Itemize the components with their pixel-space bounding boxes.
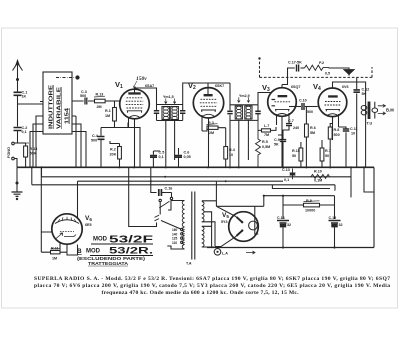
dashed option box [260,60,373,77]
wire C10 to V4 grid [305,106,318,108]
IF transformer 2 [227,97,260,167]
capacitor C17 [297,65,305,72]
svg-text:Ym2,9: Ym2,9 [239,94,250,98]
rail drop x351 [350,167,352,197]
svg-text:R.8: R.8 [334,128,340,132]
right rail [373,167,375,247]
svg-text:500: 500 [91,139,97,143]
resistor R13 50K [21,143,29,167]
svg-text:10000: 10000 [305,209,315,213]
svg-text:R.1: R.1 [105,109,111,113]
svg-text:B.M: B.M [386,108,394,113]
svg-text:C.5: C.5 [159,151,165,155]
svg-text:0,1: 0,1 [22,130,27,134]
svg-text:B: B [77,248,82,255]
tube V2 6SK7 [193,88,223,168]
resistor R6 [305,107,309,168]
svg-text:C.4: C.4 [92,134,99,138]
wire bus to C16 [151,167,157,192]
resistor R15 50K [299,142,303,167]
label selector [172,228,178,245]
bottom paragraph [34,276,390,296]
wire P2 to ground [329,68,350,70]
svg-text:53/2R.: 53/2R. [109,246,153,257]
svg-text:R.10: R.10 [314,170,322,174]
svg-text:INDUTTORE: INDUTTORE [49,84,55,129]
svg-text:50: 50 [292,154,296,158]
tube V3 6SQ7 [268,85,297,168]
tube V5 5Y3 [229,212,259,242]
svg-text:C.11: C.11 [350,127,358,131]
svg-text:0,5M: 0,5M [262,145,270,149]
resistor R1 [113,101,117,128]
power switch S [159,193,173,209]
capacitor C14 [277,221,289,248]
svg-text:500: 500 [307,110,313,114]
wire box right terminals down to bus [76,116,86,167]
svg-text:frequenza 470 kc. Onde medie d: frequenza 470 kc. Onde medie da 600 a 12… [102,290,300,296]
wire filters down [283,191,335,220]
svg-text:R.4: R.4 [229,148,236,152]
svg-text:R.5: R.5 [262,140,268,144]
mod labels [77,234,154,266]
resistor R4 [224,128,228,168]
svg-text:R.11: R.11 [51,247,59,251]
potentiometer P2 zigzag [305,65,330,70]
svg-text:6SA7: 6SA7 [145,84,154,88]
main bus wire [17,166,374,168]
junction dots bottom [263,195,336,249]
svg-text:6E5: 6E5 [85,223,92,227]
wires V5 [215,181,264,246]
capacitor C13 [290,169,296,180]
wire V3 plate to C10 [289,106,301,108]
svg-text:R.3: R.3 [208,121,214,125]
svg-text:C.10: C.10 [299,99,307,103]
tube V6 6E5 magic eye [52,214,82,252]
pilot lamp LA [214,249,255,256]
capacitor C6 [175,148,182,167]
bottom rail [207,247,374,249]
capacitor C4 500 [98,128,105,168]
bus junction dots [31,166,365,168]
svg-text:1M: 1M [105,114,110,118]
capacitor C5 [150,151,160,167]
resistor R2 20K [110,141,121,167]
inductor box text [49,84,71,129]
wire bus3 to V6 top [77,181,79,218]
svg-text:C.7: C.7 [288,119,294,123]
svg-text:C.14: C.14 [277,216,285,220]
tuning shaft dash-dot link [56,76,80,79]
rail drop x364 [364,167,374,192]
resistor R11 1M [41,248,67,254]
svg-text:MOD: MOD [93,237,108,243]
wire left feed to selector [129,167,157,226]
capacitor C1 [14,92,22,95]
resistor R3 2M [202,124,226,131]
svg-text:L.A: L.A [222,252,228,256]
svg-text:C.15: C.15 [329,216,337,220]
V2 grid cap [204,94,213,96]
svg-text:5M: 5M [310,131,315,135]
ground (bottom left) [12,167,23,199]
heater rail to filter [272,185,330,189]
svg-text:2M: 2M [97,105,102,109]
svg-text:1154: 1154 [65,108,71,124]
svg-text:7M: 7M [264,133,269,137]
svg-text:500: 500 [334,133,340,137]
svg-text:SUPERLA RADIO S. A. - Modd. 53: SUPERLA RADIO S. A. - Modd. 53/2 F e 53/… [34,276,390,282]
voltage selector [155,202,186,244]
grid leak L7 [258,127,276,132]
wire under V1 [101,123,140,168]
speaker arrows B.M [378,104,386,115]
wire V6 cathode down [67,245,78,256]
wire IF1 to V2 grid cap and IF2 feed [183,83,230,105]
svg-text:10: 10 [351,132,355,136]
svg-text:P.2: P.2 [319,61,324,65]
svg-text:R.13: R.13 [96,93,104,97]
svg-text:placca 70 V; 6V6 placca 200 V,: placca 70 V; 6V6 placca 200 V, griglia 1… [34,283,390,289]
capacitor C12 5K [354,77,360,167]
wire C1 down and to coil box [18,96,44,127]
HT filter line [264,195,335,197]
svg-text:110: 110 [172,241,177,245]
svg-text:C.16: C.16 [165,187,173,191]
second bus wire [42,167,352,177]
svg-text:C.9: C.9 [274,138,280,142]
wire V4 plate to output transformer [332,82,366,105]
resistor R10 zigzag [311,174,330,178]
svg-text:240: 240 [293,126,299,130]
third bus wire [32,167,335,190]
capacitor C3 [72,98,95,105]
fono terminal upper [12,142,15,145]
svg-text:150v: 150v [136,76,147,82]
svg-text:MOD: MOD [86,249,101,255]
ground (top right) [344,70,354,75]
svg-text:5K: 5K [362,92,367,96]
svg-text:6V6: 6V6 [342,85,349,89]
resistor R13b 2M [94,96,120,103]
svg-text:32: 32 [287,223,291,227]
resistor R9 10000 [283,196,335,207]
svg-text:L.7: L.7 [264,124,269,128]
fono terminal lower [12,157,15,160]
svg-text:V6: V6 [85,215,92,222]
svg-text:10: 10 [229,153,233,157]
resistor R5 zigzag [256,120,261,167]
svg-text:50K: 50K [30,152,37,156]
capacitor C15 [329,221,341,248]
svg-text:Ym1,5: Ym1,5 [163,95,174,99]
wire V2 plate to IF2 [229,83,231,167]
capacitor C16 [159,189,167,196]
150v arrow [133,81,137,88]
V3 grid cap [258,93,272,105]
antenna [13,61,23,81]
wire V1 plate to IF1 [134,88,157,105]
svg-text:500: 500 [80,94,86,98]
power transformer TA primary [167,201,184,250]
wire V3 plate to C17 [282,68,295,85]
svg-text:50: 50 [325,154,329,158]
svg-text:TRATTEGGIATA: TRATTEGGIATA [88,261,129,266]
svg-text:32: 32 [339,223,343,227]
power transformer TA core [192,192,195,260]
svg-text:2M: 2M [209,131,214,135]
svg-text:C.17-5K: C.17-5K [288,61,302,65]
variable inductor box L1 [40,72,76,134]
power transformer TA secondary HT [202,201,217,248]
svg-text:R.13: R.13 [30,147,38,151]
svg-text:C.13: C.13 [282,168,290,172]
svg-text:5K: 5K [274,143,279,147]
svg-text:C.12: C.12 [362,88,370,92]
wire R13 top to fono [15,142,26,144]
tube V4 6V6 [318,82,347,140]
svg-text:5Y3: 5Y3 [221,220,228,224]
svg-text:R.2: R.2 [110,148,116,152]
svg-text:1M: 1M [52,257,57,261]
svg-text:0,1M: 0,1M [314,179,322,183]
svg-text:V5: V5 [222,212,229,219]
svg-text:0,1: 0,1 [159,155,164,159]
wire antenna to C1 [17,80,19,92]
svg-text:0,1: 0,1 [284,178,289,182]
svg-text:6SQ7: 6SQ7 [291,85,300,89]
svg-text:R.7: R.7 [325,149,331,153]
svg-text:C.6: C.6 [184,151,190,155]
tube V1 6SA7 [120,88,150,167]
svg-text:FONO: FONO [7,147,11,158]
resistor R8 500 [328,117,332,168]
capacitor C11 10 [339,127,350,167]
svg-text:1K: 1K [22,95,27,99]
capacitor C9 5K [278,135,286,167]
svg-text:R.6: R.6 [310,126,316,130]
svg-text:R.9: R.9 [306,199,312,203]
svg-text:0,5: 0,5 [325,72,330,76]
capacitor C7 240 [283,113,292,135]
svg-text:T.U: T.U [367,122,373,126]
resistor R7 50K [320,140,324,167]
svg-text:T.A: T.A [186,262,192,266]
wire box terminals down to bus [30,116,40,167]
svg-text:0,05: 0,05 [184,155,191,159]
coupling capacitor C10 [302,103,304,110]
wire C2 to fono terminal [15,131,18,143]
IF transformer 1 [154,99,186,168]
output transformer TU [361,102,377,168]
wire fono lower to ground bus [15,159,18,168]
capacitor C2 [14,128,22,131]
wire bus to V6 left [41,167,52,252]
svg-text:VARIABILE: VARIABILE [57,86,63,129]
dashed box arrow head [258,57,260,59]
filament bus wire [78,176,284,182]
power transformer TA heater winding [202,226,214,247]
svg-text:6SK7: 6SK7 [215,84,224,88]
svg-text:R.15: R.15 [292,149,300,153]
svg-text:20K: 20K [110,153,117,157]
